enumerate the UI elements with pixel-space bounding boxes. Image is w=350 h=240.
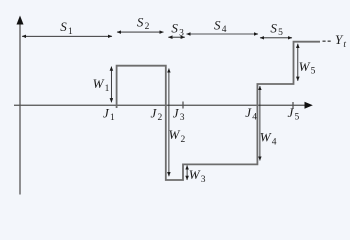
arrow W2 xyxy=(168,69,170,177)
arrow S3 xyxy=(168,36,185,38)
y-axis xyxy=(19,19,21,195)
tick J5 xyxy=(292,102,294,109)
x-axis arrowhead xyxy=(305,102,313,109)
arrow S4 xyxy=(187,33,259,35)
path of process Y_t (step trajectory) xyxy=(117,42,320,180)
x-axis xyxy=(14,104,306,106)
y-axis arrowhead xyxy=(17,16,24,25)
arrow W4 xyxy=(259,86,261,161)
arrow S1 xyxy=(22,35,112,37)
arrow S5 xyxy=(260,37,292,39)
arrow W1 xyxy=(110,67,112,103)
arrow S2 xyxy=(117,31,164,33)
arrow W5 xyxy=(297,44,299,81)
continuation dashes xyxy=(323,40,333,42)
arrow W3 xyxy=(186,165,188,180)
tick J3 xyxy=(182,102,184,109)
